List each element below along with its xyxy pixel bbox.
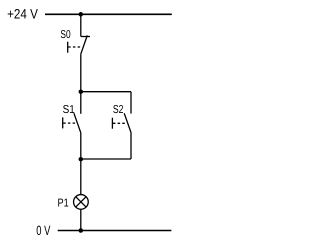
wire +24V rail	[45, 13, 172, 15]
wire junction to lamp P1	[80, 159, 82, 195]
junction dot top of parallel branch	[79, 89, 84, 94]
wire S2 down	[130, 133, 132, 160]
junction dot on +24V rail	[79, 12, 84, 16]
switch S2 lever (NO pushbutton)	[124, 113, 131, 132]
wire S1 to bottom junction	[80, 133, 82, 160]
svg-text:S1: S1	[63, 104, 75, 116]
svg-text:S0: S0	[60, 29, 70, 41]
switch S0 actuator bar	[67, 42, 69, 53]
wire from S0 to parallel junction	[80, 54, 82, 91]
wire left branch down to S1	[80, 92, 82, 114]
switch S1 actuator bar	[62, 117, 64, 128]
junction dot bottom of parallel branch	[79, 157, 84, 162]
wire right branch down to S2	[130, 92, 132, 114]
wire lamp to 0V rail	[80, 209, 82, 230]
wire branch top horizontal	[81, 91, 131, 93]
svg-text:+24 V: +24 V	[7, 7, 38, 22]
svg-text:P1: P1	[58, 198, 69, 210]
switch S0 actuator dashed link	[68, 46, 80, 48]
switch S0 (NC pushbutton) top contact tick	[81, 36, 90, 38]
switch S1 actuator dashed link	[63, 122, 76, 124]
junction dot on 0V rail	[79, 228, 84, 233]
wire 0V rail	[58, 230, 172, 232]
switch S1 lever (NO pushbutton)	[74, 113, 81, 132]
switch S2 actuator bar	[111, 118, 113, 129]
svg-text:0 V: 0 V	[36, 223, 50, 238]
lamp P1 cross	[76, 197, 86, 207]
wire branch bottom horizontal	[81, 158, 131, 160]
svg-text:S2: S2	[113, 104, 124, 116]
lamp P1 circle	[74, 195, 89, 210]
switch S2 actuator dashed link	[113, 122, 127, 124]
wire from +24V rail to S0	[80, 14, 82, 36]
switch S0 lever	[81, 35, 88, 54]
